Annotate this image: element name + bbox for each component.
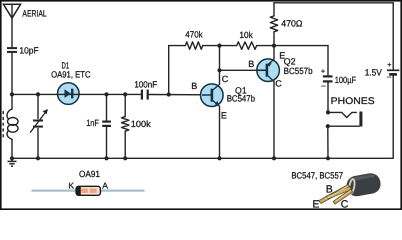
node rail varicap [36, 156, 40, 160]
wire antenna to C 10pF [11, 4, 13, 47]
battery 1.5V [365, 62, 400, 81]
resistor 470R [270, 3, 302, 46]
wire 100k to rail [124, 131, 126, 158]
svg-text:C: C [222, 74, 229, 84]
svg-text:10pF: 10pF [19, 45, 39, 55]
wire Q2 collector to rail [273, 82, 275, 159]
coil ferrite core dashed [2, 111, 4, 138]
node 1nF top [104, 92, 108, 96]
svg-text:470Ω: 470Ω [281, 19, 302, 29]
diode D1 symbol [65, 89, 73, 99]
svg-text:+: + [387, 62, 391, 69]
node Q1 collector top [217, 44, 221, 48]
svg-text:100nF: 100nF [134, 79, 157, 89]
resistor 100k [121, 117, 151, 132]
svg-text:+: + [321, 68, 325, 75]
lead glints [325, 186, 348, 199]
capacitor 100nF [134, 79, 157, 99]
wire 10pF down to main node line [11, 53, 13, 94]
svg-text:AERIAL: AERIAL [22, 9, 46, 19]
node 100k top [123, 92, 127, 96]
wire left branch to coil [11, 94, 13, 109]
svg-text:OA91, ETC: OA91, ETC [51, 69, 91, 79]
wire top supply rail [274, 2, 393, 4]
node rail 1nF [104, 156, 108, 160]
node rail phones [326, 156, 330, 160]
transistor can body [345, 172, 382, 198]
wire between 470k and 10k [203, 45, 237, 47]
diode D1 circle [51, 60, 91, 104]
capacitor C 1nF [86, 118, 111, 128]
svg-text:100k: 100k [131, 119, 151, 129]
svg-text:BC547, BC557: BC547, BC557 [291, 171, 343, 181]
wire main line right of 100nF to Q1 base [149, 94, 211, 96]
svg-text:B: B [248, 59, 254, 69]
svg-text:BC557b: BC557b [284, 66, 313, 76]
resistor 470k [185, 29, 203, 49]
node main-left [10, 92, 14, 96]
svg-text:E: E [221, 111, 227, 121]
transistor leads [319, 185, 353, 205]
svg-text:E: E [312, 198, 319, 210]
svg-text:K: K [68, 180, 74, 190]
svg-text:Q2: Q2 [284, 56, 296, 66]
wire output node to phones branch [274, 45, 328, 47]
wire varicap to rail [37, 129, 39, 159]
wire main detector line [12, 93, 141, 95]
wire battery to rail [392, 76, 394, 159]
node rail 100k [123, 156, 127, 160]
wire top bias line left [169, 45, 186, 47]
svg-text:10k: 10k [239, 30, 253, 40]
phones jack [326, 96, 375, 128]
node bias junction [167, 92, 171, 96]
wire Q1 emitter to rail [219, 106, 221, 158]
transistor Q1 BC547b [191, 74, 255, 121]
wire coil to rail [11, 139, 13, 158]
wire Q2 emitter up [273, 46, 275, 60]
wire 10k to 470R node [257, 45, 274, 47]
svg-text:C: C [275, 79, 282, 89]
wire 1nF branch upper [106, 94, 108, 120]
antenna AERIAL [3, 4, 46, 18]
svg-text:470k: 470k [185, 29, 203, 39]
transistor Q2 BC557b [248, 50, 312, 88]
wire Q1 collector [219, 46, 221, 85]
resistor 10k [237, 30, 257, 49]
svg-text:OA91: OA91 [79, 169, 100, 179]
svg-text:BC547b: BC547b [227, 94, 255, 104]
capacitor 10pF [7, 45, 39, 55]
ground [8, 158, 17, 166]
svg-text:PHONES: PHONES [331, 96, 375, 107]
node rail Q2 collector [272, 156, 276, 160]
svg-text:A: A [102, 180, 108, 190]
wire ground rail [12, 157, 393, 159]
wire Q2 base from Q1 collector [220, 69, 267, 71]
svg-text:B: B [191, 81, 197, 91]
capacitor 100uF [321, 68, 357, 90]
wire right supply down to battery [392, 3, 394, 70]
wire 100k branch upper [124, 94, 126, 116]
node 470R output [272, 44, 276, 48]
svg-text:100µF: 100µF [335, 75, 357, 85]
node varicap top [36, 92, 40, 96]
svg-text:C: C [341, 198, 349, 210]
variable capacitor [30, 109, 48, 133]
inductor coil [7, 109, 18, 139]
wire jack to rail [327, 126, 329, 158]
wire 100uF to jack [327, 83, 329, 113]
node rail Q1 emitter [217, 156, 221, 160]
svg-text:1.5V: 1.5V [365, 67, 382, 77]
BC547 BC557 package drawing [291, 171, 382, 211]
node Q2 base junction [217, 68, 221, 72]
wire bias vertical [168, 46, 170, 95]
svg-text:1nF: 1nF [86, 118, 99, 128]
wire varicap branch upper [37, 94, 39, 118]
wire phones branch down from output line [327, 46, 329, 75]
OA91 package drawing [32, 169, 145, 196]
node rail left [10, 156, 14, 160]
svg-text:B: B [326, 184, 333, 196]
wire 1nF to rail [106, 127, 108, 158]
transistor can face ring [348, 179, 355, 194]
